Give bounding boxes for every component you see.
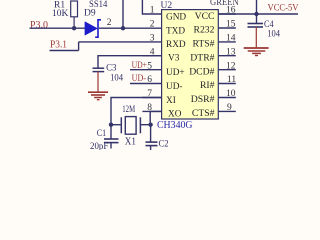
- capacitor C1 plates: [104, 138, 119, 140]
- svg-text:UD-: UD-: [166, 82, 183, 92]
- junction dot crystal left node: [109, 123, 113, 127]
- svg-text:DSR#: DSR#: [191, 94, 215, 105]
- svg-text:C3: C3: [106, 63, 117, 73]
- junction dot on TXD wire: [121, 26, 125, 30]
- svg-text:UD+: UD+: [166, 68, 185, 78]
- svg-text:CTS#: CTS#: [192, 108, 215, 119]
- svg-text:DTR#: DTR#: [190, 52, 214, 63]
- svg-text:12M: 12M: [122, 105, 135, 115]
- wire chip pin 1 to top edge: [142, 0, 161, 14]
- crystal X1 body box: [125, 117, 136, 135]
- svg-text:7: 7: [147, 89, 152, 99]
- svg-text:C2: C2: [159, 140, 169, 150]
- svg-text:2: 2: [107, 18, 112, 28]
- crystal X1 left lead wire: [111, 124, 121, 126]
- chip left pin stubs: [142, 56, 161, 112]
- wire P3.0 to diode anode: [30, 27, 86, 29]
- svg-text:GREEN: GREEN: [210, 0, 239, 8]
- svg-text:6: 6: [147, 75, 152, 85]
- svg-text:12: 12: [226, 61, 236, 71]
- diode D9 schottky cathode bar: [95, 20, 101, 37]
- chip left pin names: [166, 12, 186, 119]
- svg-text:DCD#: DCD#: [189, 66, 214, 77]
- svg-text:10: 10: [226, 89, 236, 99]
- chip right pin numbers: [226, 6, 236, 113]
- resistor R1 bottom lead wire: [73, 17, 75, 28]
- capacitor C3 plates: [93, 67, 105, 69]
- svg-text:P3.1: P3.1: [50, 39, 67, 50]
- svg-text:CH340G: CH340G: [157, 120, 193, 131]
- svg-text:P3.0: P3.0: [30, 20, 48, 31]
- svg-text:RXD: RXD: [166, 40, 186, 50]
- svg-text:D9: D9: [84, 9, 96, 19]
- chip right pin stubs: [218, 14, 236, 111]
- wire chip pin 8 to crystal right node: [150, 111, 161, 124]
- svg-text:1: 1: [150, 6, 155, 16]
- svg-text:C4: C4: [264, 20, 274, 30]
- crystal X1 left plate: [120, 117, 122, 133]
- wire junction up to top edge: [122, 0, 124, 28]
- svg-text:13: 13: [226, 47, 236, 57]
- svg-text:TXD: TXD: [166, 26, 185, 36]
- junction dot crystal right node: [148, 123, 152, 127]
- capacitor C3 top connection wire to chip pin 4: [98, 56, 162, 68]
- junction dot at R1 and P3.0 wire: [72, 26, 76, 30]
- chip right pin names: [189, 11, 214, 119]
- net label UD+5 wire: [130, 69, 162, 71]
- svg-text:104: 104: [110, 73, 123, 83]
- diode D9 triangle: [85, 22, 98, 36]
- ground symbol below C3: [88, 72, 108, 100]
- wire P3.1 vertical jog: [78, 42, 80, 51]
- capacitor C2 bottom lead: [150, 146, 152, 150]
- svg-text:RTS#: RTS#: [192, 39, 214, 50]
- capacitor C4 plates: [248, 23, 264, 25]
- svg-text:104: 104: [267, 29, 280, 39]
- svg-text:UD-: UD-: [132, 74, 146, 84]
- svg-text:5: 5: [147, 61, 152, 71]
- IC U2 body: [162, 10, 219, 119]
- capacitor C1 bottom lead: [110, 143, 112, 149]
- wire chip pin 16 to VCC-5V: [218, 13, 298, 15]
- svg-text:X1: X1: [125, 137, 136, 148]
- svg-text:XI: XI: [166, 96, 176, 106]
- wire P3.1 to chip pin 3: [79, 41, 162, 43]
- junction dot on VCC wire: [254, 12, 258, 16]
- wire P3.1 horizontal segment: [50, 50, 79, 52]
- svg-text:2: 2: [150, 20, 155, 30]
- svg-text:R232: R232: [194, 25, 215, 36]
- svg-text:8: 8: [147, 103, 152, 113]
- svg-text:GND: GND: [166, 12, 186, 22]
- resistor R1 body: [71, 1, 78, 17]
- svg-text:11: 11: [227, 75, 236, 85]
- crystal X1 right lead wire: [141, 124, 151, 126]
- svg-text:15: 15: [226, 20, 236, 30]
- svg-text:UD+: UD+: [132, 61, 147, 71]
- wire diode cathode to chip pin 2: [99, 27, 162, 29]
- svg-text:RI#: RI#: [200, 80, 215, 91]
- svg-text:14: 14: [226, 34, 236, 44]
- svg-text:C1: C1: [97, 129, 107, 139]
- capacitor C2 lead from crystal node: [150, 125, 152, 142]
- capacitor C1 lead from crystal node: [110, 125, 112, 139]
- capacitor C2 plates: [146, 141, 158, 143]
- svg-text:XO: XO: [168, 110, 182, 120]
- svg-text:10K: 10K: [52, 9, 69, 19]
- svg-text:VCC: VCC: [195, 11, 215, 22]
- svg-text:9: 9: [227, 103, 232, 113]
- svg-text:4: 4: [150, 47, 155, 57]
- ground symbol below C4: [244, 27, 269, 56]
- svg-text:20pF: 20pF: [90, 142, 108, 150]
- wire chip pin 7 to crystal left node: [111, 98, 162, 125]
- chip left pin numbers: [147, 6, 155, 113]
- net label UD- wire: [130, 83, 162, 85]
- svg-text:VCC-5V: VCC-5V: [268, 4, 299, 14]
- crystal X1 right plate: [139, 117, 141, 133]
- svg-text:3: 3: [150, 34, 155, 44]
- svg-text:V3: V3: [168, 54, 180, 64]
- wire from top edge to C4 junction: [256, 0, 258, 23]
